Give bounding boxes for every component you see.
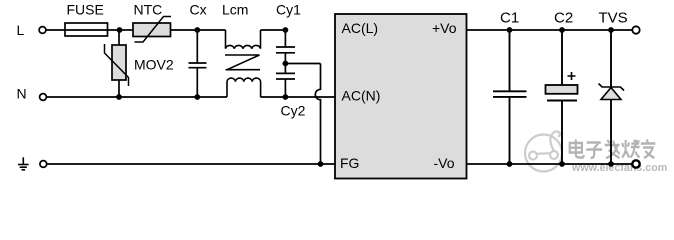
wire MOV2 top lead: [118, 30, 120, 45]
node Cy mid junction: [283, 61, 289, 67]
友: [641, 140, 655, 159]
capacitor Cx: [189, 30, 207, 97]
varistor MOV2: [105, 44, 129, 86]
svg-text:L: L: [17, 22, 25, 38]
watermark text 电子发烧友: [570, 140, 656, 159]
烧: [622, 140, 629, 158]
node C1 bottom: [507, 161, 513, 167]
power module U1: [335, 14, 467, 179]
node C1 top: [507, 27, 513, 33]
watermark logo: [525, 131, 562, 171]
wire Cy mid to FG drop: [285, 63, 320, 65]
wire FG row: [47, 163, 335, 165]
svg-text:AC(L): AC(L): [342, 20, 379, 36]
node Cx top junction: [194, 27, 200, 33]
svg-text:C1: C1: [500, 10, 519, 27]
node MOV2/N junction: [116, 94, 122, 100]
svg-text:FUSE: FUSE: [67, 2, 104, 18]
node C2 top: [559, 27, 565, 33]
terminal -Vo output: [632, 160, 639, 167]
inductor Lcm top winding: [226, 30, 261, 49]
node C2 bottom: [559, 161, 565, 167]
thermistor NTC: [133, 17, 171, 43]
svg-text:Cy1: Cy1: [276, 2, 301, 18]
svg-text:AC(N): AC(N): [342, 88, 381, 104]
node Cy2 bottom junction: [283, 94, 289, 100]
svg-text:MOV2: MOV2: [134, 57, 174, 73]
capacitor C2 (electrolytic): [546, 30, 578, 164]
svg-text:Cy2: Cy2: [281, 103, 306, 119]
wire L to fuse: [46, 29, 65, 31]
terminal L: [39, 27, 46, 34]
wire NTC to Cx node: [171, 29, 198, 31]
子: [586, 143, 602, 159]
node fuse/NTC/MOV2 junction: [117, 27, 123, 33]
wire +Vo row: [467, 29, 633, 31]
wire MOV2 bottom lead: [118, 80, 120, 97]
svg-text:+Vo: +Vo: [432, 20, 457, 36]
terminal FG: [40, 161, 47, 168]
capacitor C1: [493, 30, 527, 164]
wire -Vo row: [467, 163, 633, 165]
wire N row: [47, 96, 228, 98]
svg-text:Lcm: Lcm: [222, 2, 248, 18]
wire choke to Cy1 node (L row): [261, 29, 286, 31]
terminal +Vo output: [632, 26, 639, 33]
wire FG drop with hop over N line: [315, 64, 320, 165]
svg-text:-Vo: -Vo: [434, 155, 455, 171]
wire Cx to choke (L row): [197, 29, 225, 31]
node Cx bottom junction: [194, 94, 200, 100]
wire N row after choke: [261, 96, 336, 98]
svg-text:TVS: TVS: [599, 10, 628, 27]
fuse F1: [65, 23, 120, 36]
node TVS top: [608, 27, 614, 33]
capacitor Cy2: [276, 64, 295, 98]
发: [605, 140, 620, 158]
terminal N: [40, 94, 47, 101]
core symbol of Lcm: [225, 55, 260, 70]
node TVS bottom: [608, 161, 614, 167]
svg-text:C2: C2: [554, 10, 573, 27]
svg-text:NTC: NTC: [134, 2, 163, 18]
node Cy1 top junction: [283, 27, 289, 33]
电: [570, 140, 584, 158]
svg-text:Cx: Cx: [190, 2, 207, 18]
capacitor Cy1: [276, 30, 295, 64]
diode TVS (zener): [599, 30, 625, 164]
wire junction to NTC: [120, 29, 134, 31]
ground symbol: [18, 157, 29, 170]
svg-text:N: N: [17, 86, 27, 102]
node FG drop junction: [318, 161, 324, 167]
inductor Lcm bottom winding: [227, 78, 261, 97]
svg-text:FG: FG: [340, 155, 359, 171]
